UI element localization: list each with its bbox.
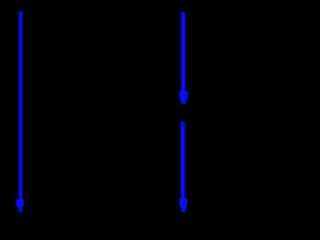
wire right bottom arrow bbox=[180, 122, 188, 212]
wire left arrow bbox=[16, 12, 24, 213]
wire right top arrow glow bbox=[179, 12, 188, 104]
wire right bottom arrow glow bbox=[179, 121, 187, 212]
wire right top arrow bbox=[179, 12, 188, 104]
wire left arrow glow bbox=[16, 11, 24, 213]
